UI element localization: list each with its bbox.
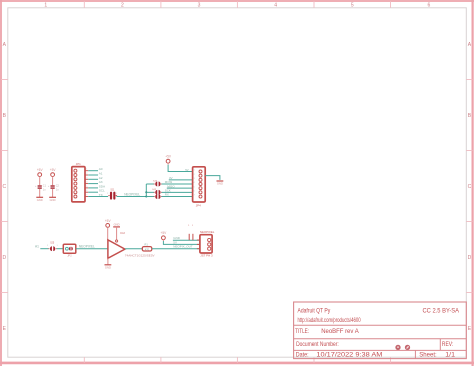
svg-text:1: 1 <box>194 170 195 172</box>
wire SCL <box>88 191 98 193</box>
svg-text:GND: GND <box>217 182 223 186</box>
svg-text:Sheet:: Sheet: <box>419 351 437 358</box>
wire TX to SJ1 <box>88 196 108 198</box>
svg-text:R1: R1 <box>145 242 149 246</box>
wire junction to SJ3 <box>146 183 154 185</box>
SJ5 pin numbers <box>47 245 58 247</box>
svg-text:5: 5 <box>351 3 354 9</box>
frame column numbers <box>44 3 430 9</box>
svg-text:2: 2 <box>47 245 48 247</box>
capacitor C2 <box>48 185 55 188</box>
svg-text:470: 470 <box>145 248 150 251</box>
svg-text:+5V: +5V <box>37 168 44 172</box>
svg-text:GND: GND <box>114 223 120 227</box>
power +5V C1 <box>37 168 44 178</box>
wire GND to OE bubble <box>116 227 118 240</box>
wire A3 <box>88 183 98 185</box>
op-amp buffer IC2 <box>108 240 125 258</box>
junction dot SCK <box>145 191 147 193</box>
wire A0 <box>88 170 98 172</box>
solder jumper SJ1 <box>108 192 117 200</box>
svg-text:Document Number:: Document Number: <box>296 341 339 348</box>
svg-text:1: 1 <box>44 3 47 9</box>
svg-text:1: 1 <box>188 225 189 227</box>
svg-text:Date:: Date: <box>296 351 309 358</box>
title block frame <box>294 302 467 359</box>
ground JP4 <box>217 181 224 186</box>
svg-text:2: 2 <box>86 173 87 175</box>
svg-text:1: 1 <box>86 169 87 171</box>
power +5V JP4 <box>165 155 172 165</box>
svg-text:GND: GND <box>105 265 111 269</box>
solder jumper SJ4 <box>154 194 162 199</box>
wire SJ5 to JP2 <box>57 248 64 250</box>
svg-text:5V: 5V <box>185 168 189 172</box>
junction dot RX <box>145 195 147 197</box>
svg-text:1: 1 <box>192 225 193 227</box>
svg-text:TITLE:: TITLE: <box>295 328 309 335</box>
svg-text:+5V: +5V <box>165 155 172 159</box>
svg-text:4: 4 <box>86 182 87 184</box>
svg-text:7: 7 <box>194 195 195 197</box>
svg-text:5V: 5V <box>173 240 177 244</box>
svg-text:Adafruit QT Py: Adafruit QT Py <box>298 307 331 314</box>
wire +5V to JP4 pin1 <box>168 165 193 172</box>
svg-text:74AHCT1G125/SE5V: 74AHCT1G125/SE5V <box>125 254 155 258</box>
SJ1 pin numbers <box>107 193 117 195</box>
svg-text:REV:: REV: <box>442 341 454 348</box>
svg-text:3: 3 <box>194 178 195 180</box>
svg-text:JP2: JP2 <box>67 253 72 257</box>
svg-text:3: 3 <box>86 177 87 179</box>
svg-text:GND: GND <box>37 198 43 202</box>
svg-text:2: 2 <box>194 174 195 176</box>
svg-text:1: 1 <box>57 245 58 247</box>
ground C2 <box>49 197 56 202</box>
svg-text:C: C <box>2 184 6 190</box>
power +5V JST <box>161 231 168 241</box>
svg-text:10/17/2022 9:38 AM: 10/17/2022 9:38 AM <box>316 352 382 358</box>
svg-text:6: 6 <box>428 3 431 9</box>
wire junction vertical <box>145 184 147 197</box>
logo Adafruit <box>405 345 410 350</box>
svg-text:4: 4 <box>274 3 277 9</box>
resistor R1 <box>142 247 152 251</box>
svg-text:SJ1: SJ1 <box>110 190 115 192</box>
svg-text:2: 2 <box>121 3 124 9</box>
wire A1 <box>88 174 98 176</box>
wire IC2 GND pin <box>107 258 109 264</box>
wire A2 <box>88 178 98 180</box>
wire junction to SJ4 <box>146 196 154 198</box>
ground IC2 OE <box>113 223 120 227</box>
label C2 value <box>56 184 60 191</box>
svg-text:GND: GND <box>173 236 181 240</box>
wire +5V to C1 <box>39 178 41 185</box>
svg-text:NEOPIXEL: NEOPIXEL <box>124 192 140 196</box>
power +5V IC2 <box>105 219 112 229</box>
svg-text:6: 6 <box>86 190 87 192</box>
label C1 value <box>43 184 47 191</box>
logo OSHW <box>395 345 400 350</box>
svg-text:5: 5 <box>194 186 195 188</box>
wire C2 to ground <box>52 189 54 197</box>
svg-text:D: D <box>2 255 6 261</box>
capacitor C1 <box>35 185 42 188</box>
JP1 pin numbers <box>86 169 87 197</box>
ground C1 <box>36 197 43 202</box>
svg-text:JP4: JP4 <box>196 204 201 208</box>
JP4 pin numbers <box>194 170 195 197</box>
svg-text:GND: GND <box>50 198 56 202</box>
wire +5V to C2 <box>52 178 54 185</box>
connector X1 JST <box>197 235 212 253</box>
wire SJ3 to MOSI pin <box>162 183 193 185</box>
svg-text:NEOPIX_OUT: NEOPIX_OUT <box>173 245 193 249</box>
wire +5V to IC2 VCC <box>107 229 109 240</box>
svg-text:1: 1 <box>116 193 117 195</box>
frame row ticks <box>1 80 473 293</box>
OE inversion bubble <box>116 240 118 242</box>
wire SJ4 to RX pin <box>162 196 193 198</box>
svg-text:A1: A1 <box>35 245 39 249</box>
svg-text:JST PH 3: JST PH 3 <box>200 254 213 258</box>
svg-text:6: 6 <box>194 190 195 192</box>
svg-text:2: 2 <box>107 193 108 195</box>
svg-text:+5V: +5V <box>161 231 168 235</box>
svg-text:TX: TX <box>99 193 103 197</box>
svg-text:3: 3 <box>198 3 201 9</box>
frame column ticks <box>84 1 390 363</box>
svg-text:+5V: +5V <box>50 168 57 172</box>
power +5V C2 <box>50 168 57 178</box>
connector JP4 <box>193 167 206 202</box>
solder jumper SJ3 <box>154 182 162 187</box>
svg-text:NeoBFF rev A: NeoBFF rev A <box>321 329 359 335</box>
svg-text:CC 2.5 BY-SA: CC 2.5 BY-SA <box>423 309 460 315</box>
svg-text:7: 7 <box>86 195 87 197</box>
svg-text:C: C <box>468 184 472 190</box>
connector JP1 <box>72 167 88 202</box>
solder jumper SJ2 <box>154 190 162 195</box>
ground IC2 bottom <box>105 265 112 270</box>
svg-text:NEOPIXEL: NEOPIXEL <box>79 245 95 249</box>
svg-text:+5V: +5V <box>105 219 112 223</box>
wire SJ2 to SCK pin <box>162 191 193 193</box>
wire MISO stub <box>167 187 193 189</box>
wire IC2 output to R1 <box>125 248 142 250</box>
svg-text:NEOPIXEL: NEOPIXEL <box>200 230 215 234</box>
svg-text:IC2: IC2 <box>120 231 125 235</box>
svg-text:1/1: 1/1 <box>445 352 455 358</box>
wire NEOPIXEL lower <box>76 248 108 250</box>
svg-text:http://adafruit.com/products/4: http://adafruit.com/products/4600 <box>298 318 362 324</box>
wire +5V to JST <box>163 241 200 244</box>
svg-text:D: D <box>468 255 472 261</box>
jumper JP2 <box>63 244 76 253</box>
wire JP4 to ground <box>205 176 220 180</box>
wire GND to JST <box>173 239 200 241</box>
frame row letters <box>2 42 471 332</box>
svg-text:RX: RX <box>165 193 169 197</box>
wire junction to SJ2 <box>146 191 154 193</box>
wire A1 to SJ5 <box>40 248 48 250</box>
wire R1 to JST data pin <box>152 248 200 250</box>
svg-text:5: 5 <box>86 186 87 188</box>
wire C1 to ground <box>39 189 41 197</box>
mount pin MP1 <box>188 225 189 240</box>
svg-text:JP1: JP1 <box>76 162 81 166</box>
wire 3V stub <box>169 179 193 181</box>
wire SDA <box>88 187 98 189</box>
wire NEOPIXEL upper <box>117 196 147 198</box>
solder jumper SJ5 <box>48 246 56 251</box>
mount pin MP2 <box>192 225 193 240</box>
svg-text:4: 4 <box>194 182 195 184</box>
